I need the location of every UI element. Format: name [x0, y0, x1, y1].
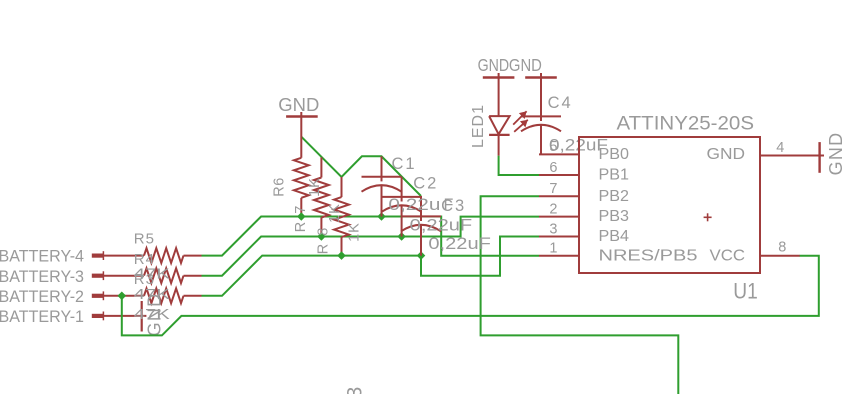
svg-text:C4: C4 — [548, 94, 573, 112]
svg-text:4: 4 — [776, 140, 785, 156]
svg-text:BATTERY-3: BATTERY-3 — [0, 267, 84, 286]
svg-text:1K: 1K — [307, 177, 323, 197]
svg-text:PB4: PB4 — [599, 228, 630, 245]
svg-text:GND: GND — [278, 95, 319, 115]
svg-text:C1: C1 — [392, 155, 417, 173]
svg-text:8: 8 — [778, 240, 787, 256]
svg-text:1: 1 — [549, 241, 558, 257]
svg-text:GND: GND — [478, 55, 510, 75]
svg-text:PB3: PB3 — [599, 208, 630, 225]
svg-text:R6: R6 — [272, 177, 288, 197]
svg-text:R7: R7 — [293, 198, 309, 233]
svg-text:U1: U1 — [733, 279, 758, 304]
svg-text:47K: 47K — [134, 286, 170, 303]
svg-text:BATTERY-1: BATTERY-1 — [0, 307, 84, 326]
svg-text:7: 7 — [549, 181, 558, 197]
svg-text:PB0: PB0 — [599, 146, 630, 163]
svg-text:47K: 47K — [134, 306, 170, 323]
svg-text:BATTERY-2: BATTERY-2 — [0, 287, 84, 306]
svg-text:GND: GND — [509, 55, 542, 75]
svg-text:NRES/PB5: NRES/PB5 — [599, 247, 698, 264]
svg-text:LED1: LED1 — [470, 104, 487, 148]
svg-text:0,22uF: 0,22uF — [410, 216, 473, 234]
svg-text:C2: C2 — [413, 174, 438, 192]
svg-text:0,22uF: 0,22uF — [428, 235, 491, 253]
svg-text:1K: 1K — [327, 203, 343, 223]
svg-text:47K: 47K — [134, 266, 170, 283]
svg-text:3: 3 — [549, 221, 558, 237]
svg-text:ATTINY25-20S: ATTINY25-20S — [617, 114, 755, 135]
svg-text:VCC: VCC — [710, 247, 746, 264]
svg-text:R5: R5 — [134, 231, 155, 248]
svg-text:R8: R8 — [316, 220, 332, 255]
svg-text:PB1: PB1 — [599, 167, 630, 184]
svg-text:6: 6 — [549, 160, 558, 176]
svg-text:5: 5 — [549, 139, 558, 155]
svg-text:F: F — [444, 196, 454, 214]
svg-text:1K: 1K — [346, 222, 362, 242]
svg-text:2: 2 — [549, 201, 558, 217]
svg-text:0,22u: 0,22u — [388, 196, 440, 214]
svg-text:3: 3 — [343, 386, 366, 394]
svg-text:PB2: PB2 — [599, 188, 630, 205]
svg-text:GND: GND — [707, 146, 746, 163]
svg-text:BATTERY-4: BATTERY-4 — [0, 247, 84, 266]
svg-text:GND: GND — [826, 132, 846, 176]
